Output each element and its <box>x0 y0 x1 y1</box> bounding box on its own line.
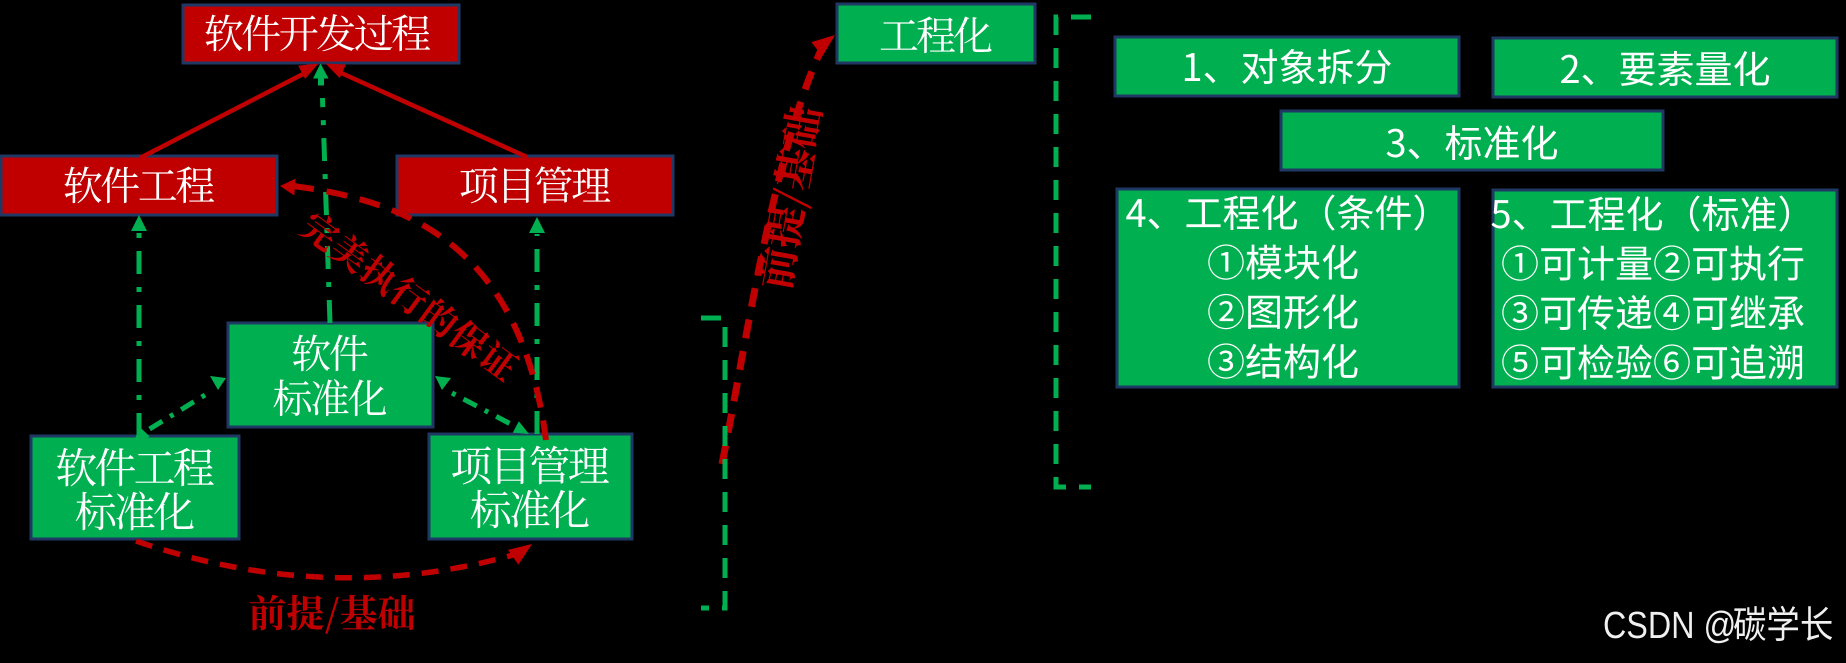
text: 1、对象拆分 <box>1185 49 1391 84</box>
box: 软件开发过程 <box>183 5 459 63</box>
text: 项目管理标准化 <box>452 446 609 485</box>
text: 软件工程 <box>64 167 214 204</box>
text: 工程化 <box>881 17 992 54</box>
box: 项目管理标准化 <box>429 434 632 539</box>
box: 2、要素量化 <box>1493 38 1837 97</box>
arrow: 软件标准化 -> 软件开发过程 (green dash-dot) <box>323 98 331 323</box>
box: 工程化 <box>837 4 1035 63</box>
arrow: 项目管理 -> 软件开发过程 (red solid line) <box>339 72 527 157</box>
arrow: 软件工程 -> 软件开发过程 (red solid line) <box>140 73 305 158</box>
bracket: right group (green dashed, opens right) <box>1056 17 1091 487</box>
text: 软件标准化 <box>293 335 368 372</box>
box: 3、标准化 <box>1281 111 1663 170</box>
box: 软件工程 <box>1 156 277 215</box>
arrow: 项目管理标准化 -> 项目管理 (green dash-dot) <box>535 234 540 434</box>
arrow: 完美执行的保证 curve (red dashed) <box>293 186 546 440</box>
text: 5、工程化（标准） lines <box>1492 195 1790 231</box>
box: 4、工程化（条件） <box>1117 189 1459 387</box>
arrow: 软件工程标准化 -> 项目管理标准化 bottom arc (red dashed) <box>136 541 520 578</box>
text: 软件工程标准化 <box>57 448 214 487</box>
box: 软件标准化 <box>228 323 433 427</box>
box: 5、工程化（标准） <box>1493 190 1837 387</box>
box: 项目管理 <box>397 156 673 215</box>
arrow: 前提/基础 curve -> 工程化 (red dashed) <box>722 38 827 464</box>
text: 2、要素量化 <box>1561 51 1769 86</box>
label: 前提/基础 bottom (red bold) <box>250 595 415 634</box>
arrow: 软件标准化 <-> 软件工程标准化 (green dash-dot diagonal) <box>148 395 205 430</box>
arrow: 软件标准化 <-> 项目管理标准化 (green dash-dot diagonal) <box>452 393 522 430</box>
text: 4、工程化（条件） line1 <box>1126 194 1424 230</box>
text: 项目管理 <box>461 166 611 203</box>
bracket: left group (green dashed, opens left) <box>701 318 725 608</box>
label: 完美执行的保证 (rotated red) <box>297 207 523 385</box>
arrow: 软件工程标准化 -> 软件工程 (green dash-dot) <box>137 232 142 436</box>
text: 4、工程化 condition items <box>1208 244 1357 279</box>
text: 3、标准化 <box>1387 125 1557 160</box>
text: 软件开发过程 <box>205 14 430 51</box>
box: 1、对象拆分 <box>1115 37 1459 96</box>
box: 软件工程标准化 <box>31 436 239 539</box>
label: 前提/基础 rotated (red bold) <box>754 105 828 292</box>
watermark: CSDN @碳学长 <box>1605 610 1734 643</box>
